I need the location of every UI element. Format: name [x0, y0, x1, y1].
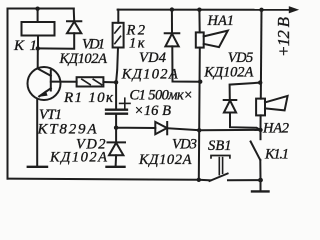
- capacitor C1: [106, 82, 130, 127]
- node HA1 branch bottom: [197, 128, 201, 132]
- svg-text:КТ829А: КТ829А: [37, 122, 98, 138]
- diode VD2: [108, 128, 126, 167]
- svg-text:×16 В: ×16 В: [134, 103, 171, 119]
- ground bottom right: [252, 180, 269, 191]
- wire node to VD1 anode: [38, 33, 74, 49]
- node C1 / VD2 / VD3: [114, 126, 118, 130]
- power +12V arrow: [289, 7, 297, 13]
- svg-text:НА1: НА1: [207, 13, 235, 29]
- svg-text:VD3: VD3: [172, 136, 197, 152]
- svg-text:КД102А: КД102А: [203, 65, 253, 81]
- resistor R2: [113, 10, 124, 83]
- wire collector lead: [37, 48, 39, 68]
- node relay bottom / VD1 / collector: [36, 46, 40, 50]
- node top rail / VD4: [170, 7, 174, 11]
- svg-text:К1.1: К1.1: [264, 147, 289, 163]
- ground emitter: [28, 166, 47, 168]
- node top rail / HA1: [197, 8, 201, 12]
- buzzer HA1: [196, 10, 228, 180]
- wire bottom rail: [8, 179, 211, 181]
- switch K1.1: [251, 130, 261, 180]
- svg-text:SB1: SB1: [208, 138, 232, 154]
- transistor VT1: [28, 67, 77, 100]
- svg-text:КД102А: КД102А: [59, 51, 108, 67]
- wire emitter lead: [36, 99, 38, 166]
- ground VD2: [107, 166, 125, 168]
- node HA2 bottom / K1.1 / VD5: [258, 128, 262, 132]
- wire top rail right segment: [118, 9, 290, 11]
- svg-text:С1 500мк×: С1 500мк×: [130, 87, 194, 103]
- node top rail / relay: [35, 7, 39, 11]
- node HA2 / VD5 top: [258, 80, 262, 84]
- diode VD1: [67, 9, 81, 34]
- node bottom rail / HA1 branch: [197, 178, 201, 182]
- svg-text:VD4: VD4: [139, 50, 166, 66]
- svg-text:+12 В: +12 В: [274, 16, 293, 57]
- svg-text:R1 10к: R1 10к: [63, 90, 114, 106]
- svg-text:КД102А: КД102А: [49, 149, 107, 165]
- node top rail / HA2: [259, 8, 263, 12]
- diode VD5: [224, 83, 261, 130]
- node R1 / R2 / C1: [114, 80, 118, 84]
- node bottom right: [258, 178, 263, 183]
- svg-text:КД102А: КД102А: [138, 152, 192, 168]
- wire relay top lead: [37, 9, 39, 22]
- wire node to K1.1 node: [199, 129, 260, 131]
- wire relay bottom lead: [37, 36, 39, 49]
- svg-text:КД102А: КД102А: [121, 66, 178, 82]
- wire left border + top-left rail segment: [8, 9, 74, 179]
- diode VD3: [116, 122, 199, 134]
- diode VD4: [165, 10, 201, 82]
- node HA1 / VD4: [198, 80, 202, 84]
- resistor R1: [77, 77, 116, 86]
- pushbutton SB1: [210, 156, 261, 182]
- svg-text:НА2: НА2: [262, 120, 289, 136]
- buzzer HA2: [256, 10, 288, 130]
- relay K1: [22, 22, 55, 36]
